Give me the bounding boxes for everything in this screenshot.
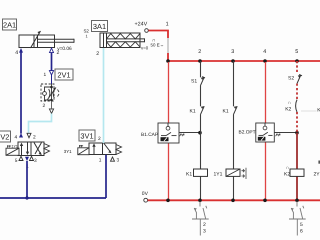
svg-text:2: 2: [96, 51, 99, 57]
svg-text:B1.CAP: B1.CAP: [141, 132, 158, 138]
svg-text:4: 4: [15, 50, 18, 56]
solenoid 3Y1 on valve 3V1: [78, 145, 89, 155]
solenoid link marks (1Y1): [242, 168, 247, 179]
svg-text:K2: K2: [285, 107, 291, 113]
relay coil K1: [186, 169, 208, 177]
port arrow 1 (1V2): [25, 157, 29, 161]
label box 3V1: [79, 130, 95, 141]
port arrow 2 (1V2): [27, 133, 31, 138]
junction on supply bus: [25, 196, 28, 199]
contact overview under K2: [289, 201, 306, 235]
plug marks (B2 output): [276, 133, 281, 136]
label box 2V1: [55, 69, 73, 80]
svg-text:3V1: 3V1: [80, 132, 93, 141]
svg-text:3A1: 3A1: [93, 22, 106, 31]
svg-text:6: 6: [300, 229, 303, 235]
svg-text:1V2: 1V2: [0, 133, 9, 142]
svg-text:v=0: v=0: [141, 46, 149, 51]
wire 2A1 port2 down to 2V1 (dark blue): [51, 53, 53, 71]
svg-text:∩: ∩: [288, 100, 291, 105]
svg-text:1: 1: [44, 72, 47, 78]
spring (1V2): [44, 144, 50, 154]
wire B2 output to column 5: [275, 132, 298, 134]
svg-text:+24V: +24V: [135, 21, 148, 27]
arrow into 2V1 port 1: [49, 71, 53, 75]
svg-text:3: 3: [231, 49, 234, 55]
relay contact K2 (column 5): [296, 100, 297, 112]
wire 1V2 port1 to supply bus (dark blue): [26, 161, 28, 198]
svg-text:2V1: 2V1: [57, 71, 70, 80]
svg-text:3: 3: [117, 157, 120, 163]
svg-text:2: 2: [198, 49, 201, 55]
svg-text:0V: 0V: [142, 191, 149, 197]
svg-text:2: 2: [33, 135, 36, 141]
svg-text:1: 1: [99, 157, 102, 163]
svg-text:3Y1: 3Y1: [64, 149, 72, 154]
switch S2 (NO contact): [297, 74, 302, 83]
column 1 wire upper (light red): [168, 62, 170, 123]
junction dots on +24V rail: [166, 59, 299, 63]
arrow out of 2V1 port 2: [49, 109, 53, 114]
wire B1 output to column 2: [179, 132, 200, 134]
column 2 wire: [200, 61, 202, 200]
svg-text:2A1: 2A1: [3, 21, 16, 30]
svg-text:3: 3: [203, 229, 206, 235]
wire +24V to column 1 (red): [148, 31, 168, 39]
label box 3A1: [92, 21, 108, 32]
0V terminal: [142, 191, 149, 202]
svg-text:K1: K1: [190, 108, 196, 114]
column 5 wire lower (dark red): [296, 133, 298, 169]
svg-text:v=0.06: v=0.06: [57, 46, 72, 52]
label box 2A1: [3, 19, 17, 30]
junction dots on 0V rail: [166, 199, 299, 203]
label box 1V2 (clipped at left edge): [0, 131, 11, 142]
main switch contact on column 1: [151, 37, 169, 53]
relay contact K1 (column 3): [234, 106, 238, 114]
column 5 wire upper (dark red dashed): [296, 61, 298, 133]
port arrow 2 (2A1): [50, 48, 54, 53]
+24V terminal: [135, 21, 149, 32]
svg-text:K2: K2: [284, 172, 290, 178]
wire stub into 2V1: [51, 75, 53, 84]
svg-text:2: 2: [203, 222, 206, 228]
valve 3V1 body (3/2 way): [89, 143, 116, 155]
cylinder 2A1: [19, 31, 74, 48]
svg-text:S2: S2: [288, 75, 294, 81]
svg-text:S1: S1: [191, 78, 197, 84]
svg-text:5: 5: [300, 222, 303, 228]
spring (3V1): [116, 145, 122, 155]
wire 3A1 port to 3V1 port2 (light blue): [103, 48, 105, 144]
contact overview under K1: [192, 201, 209, 235]
svg-text:2: 2: [57, 50, 60, 56]
svg-text:B2.OPT: B2.OPT: [239, 130, 256, 136]
exhaust arrow 3 (1V2): [30, 156, 34, 160]
svg-text:4: 4: [263, 49, 266, 55]
svg-text:1Y1: 1Y1: [12, 144, 18, 148]
junction dot column2/B1: [198, 131, 202, 135]
+24V rail (red): [168, 60, 320, 62]
plug marks (B1 output): [180, 133, 185, 136]
wire contact to +24V rail (red): [167, 53, 169, 61]
column 3 wire: [233, 61, 235, 200]
sensor B2.OPT: [256, 123, 274, 142]
junction dot column5/B2: [295, 131, 299, 135]
svg-text:5: 5: [295, 49, 298, 55]
relay coil K2: [284, 165, 304, 177]
svg-text:4: 4: [15, 135, 18, 141]
supply bus (dark blue): [0, 197, 106, 199]
svg-text:2: 2: [98, 136, 101, 142]
svg-text:E↔: E↔: [157, 43, 164, 48]
column 1 wire lower (light red): [168, 143, 170, 200]
svg-text:1Y1: 1Y1: [214, 171, 223, 177]
svg-text:K1: K1: [223, 108, 229, 114]
svg-text:2: 2: [43, 103, 46, 109]
sensor B1.CAP: [158, 123, 179, 143]
plug mark fragment (right edge): [318, 161, 320, 164]
svg-text:3: 3: [34, 158, 37, 164]
svg-text:∩: ∩: [286, 165, 289, 170]
column 4 wire (red): [265, 62, 267, 123]
svg-text:1: 1: [86, 34, 89, 39]
relay contact K1 (column 2): [201, 106, 205, 114]
wire 3V1 port1 to supply bus (dark blue): [105, 155, 107, 198]
0V rail (red): [148, 199, 320, 201]
svg-text:1: 1: [166, 21, 169, 27]
svg-text:50: 50: [151, 42, 156, 47]
exhaust arrow 5 (1V2): [19, 156, 23, 160]
exhaust arrow 3 (3V1): [111, 157, 115, 161]
wire to column 6 (faint, clipped): [301, 110, 317, 112]
svg-text:K1: K1: [186, 171, 192, 177]
svg-text:2Y: 2Y: [314, 172, 320, 178]
switch S1 (NO contact): [201, 77, 206, 86]
wire 2V1 to 1V2 port2 (light blue): [51, 101, 53, 110]
wire 2A1 port4 to 1V2 port4 (dark blue): [20, 53, 22, 134]
flow control valve 2V1: [41, 84, 59, 101]
valve 1V2 body (5/2 way): [18, 142, 44, 156]
port arrow 4 (1V2): [19, 133, 23, 138]
cylinder 3A1 (single acting, spring return): [100, 33, 145, 48]
svg-text:5: 5: [15, 158, 18, 164]
valve solenoid coil 1Y1: [214, 169, 241, 177]
port arrow 4 (2A1): [19, 48, 23, 53]
solenoid 1Y1 on valve 1V2: [6, 145, 19, 155]
